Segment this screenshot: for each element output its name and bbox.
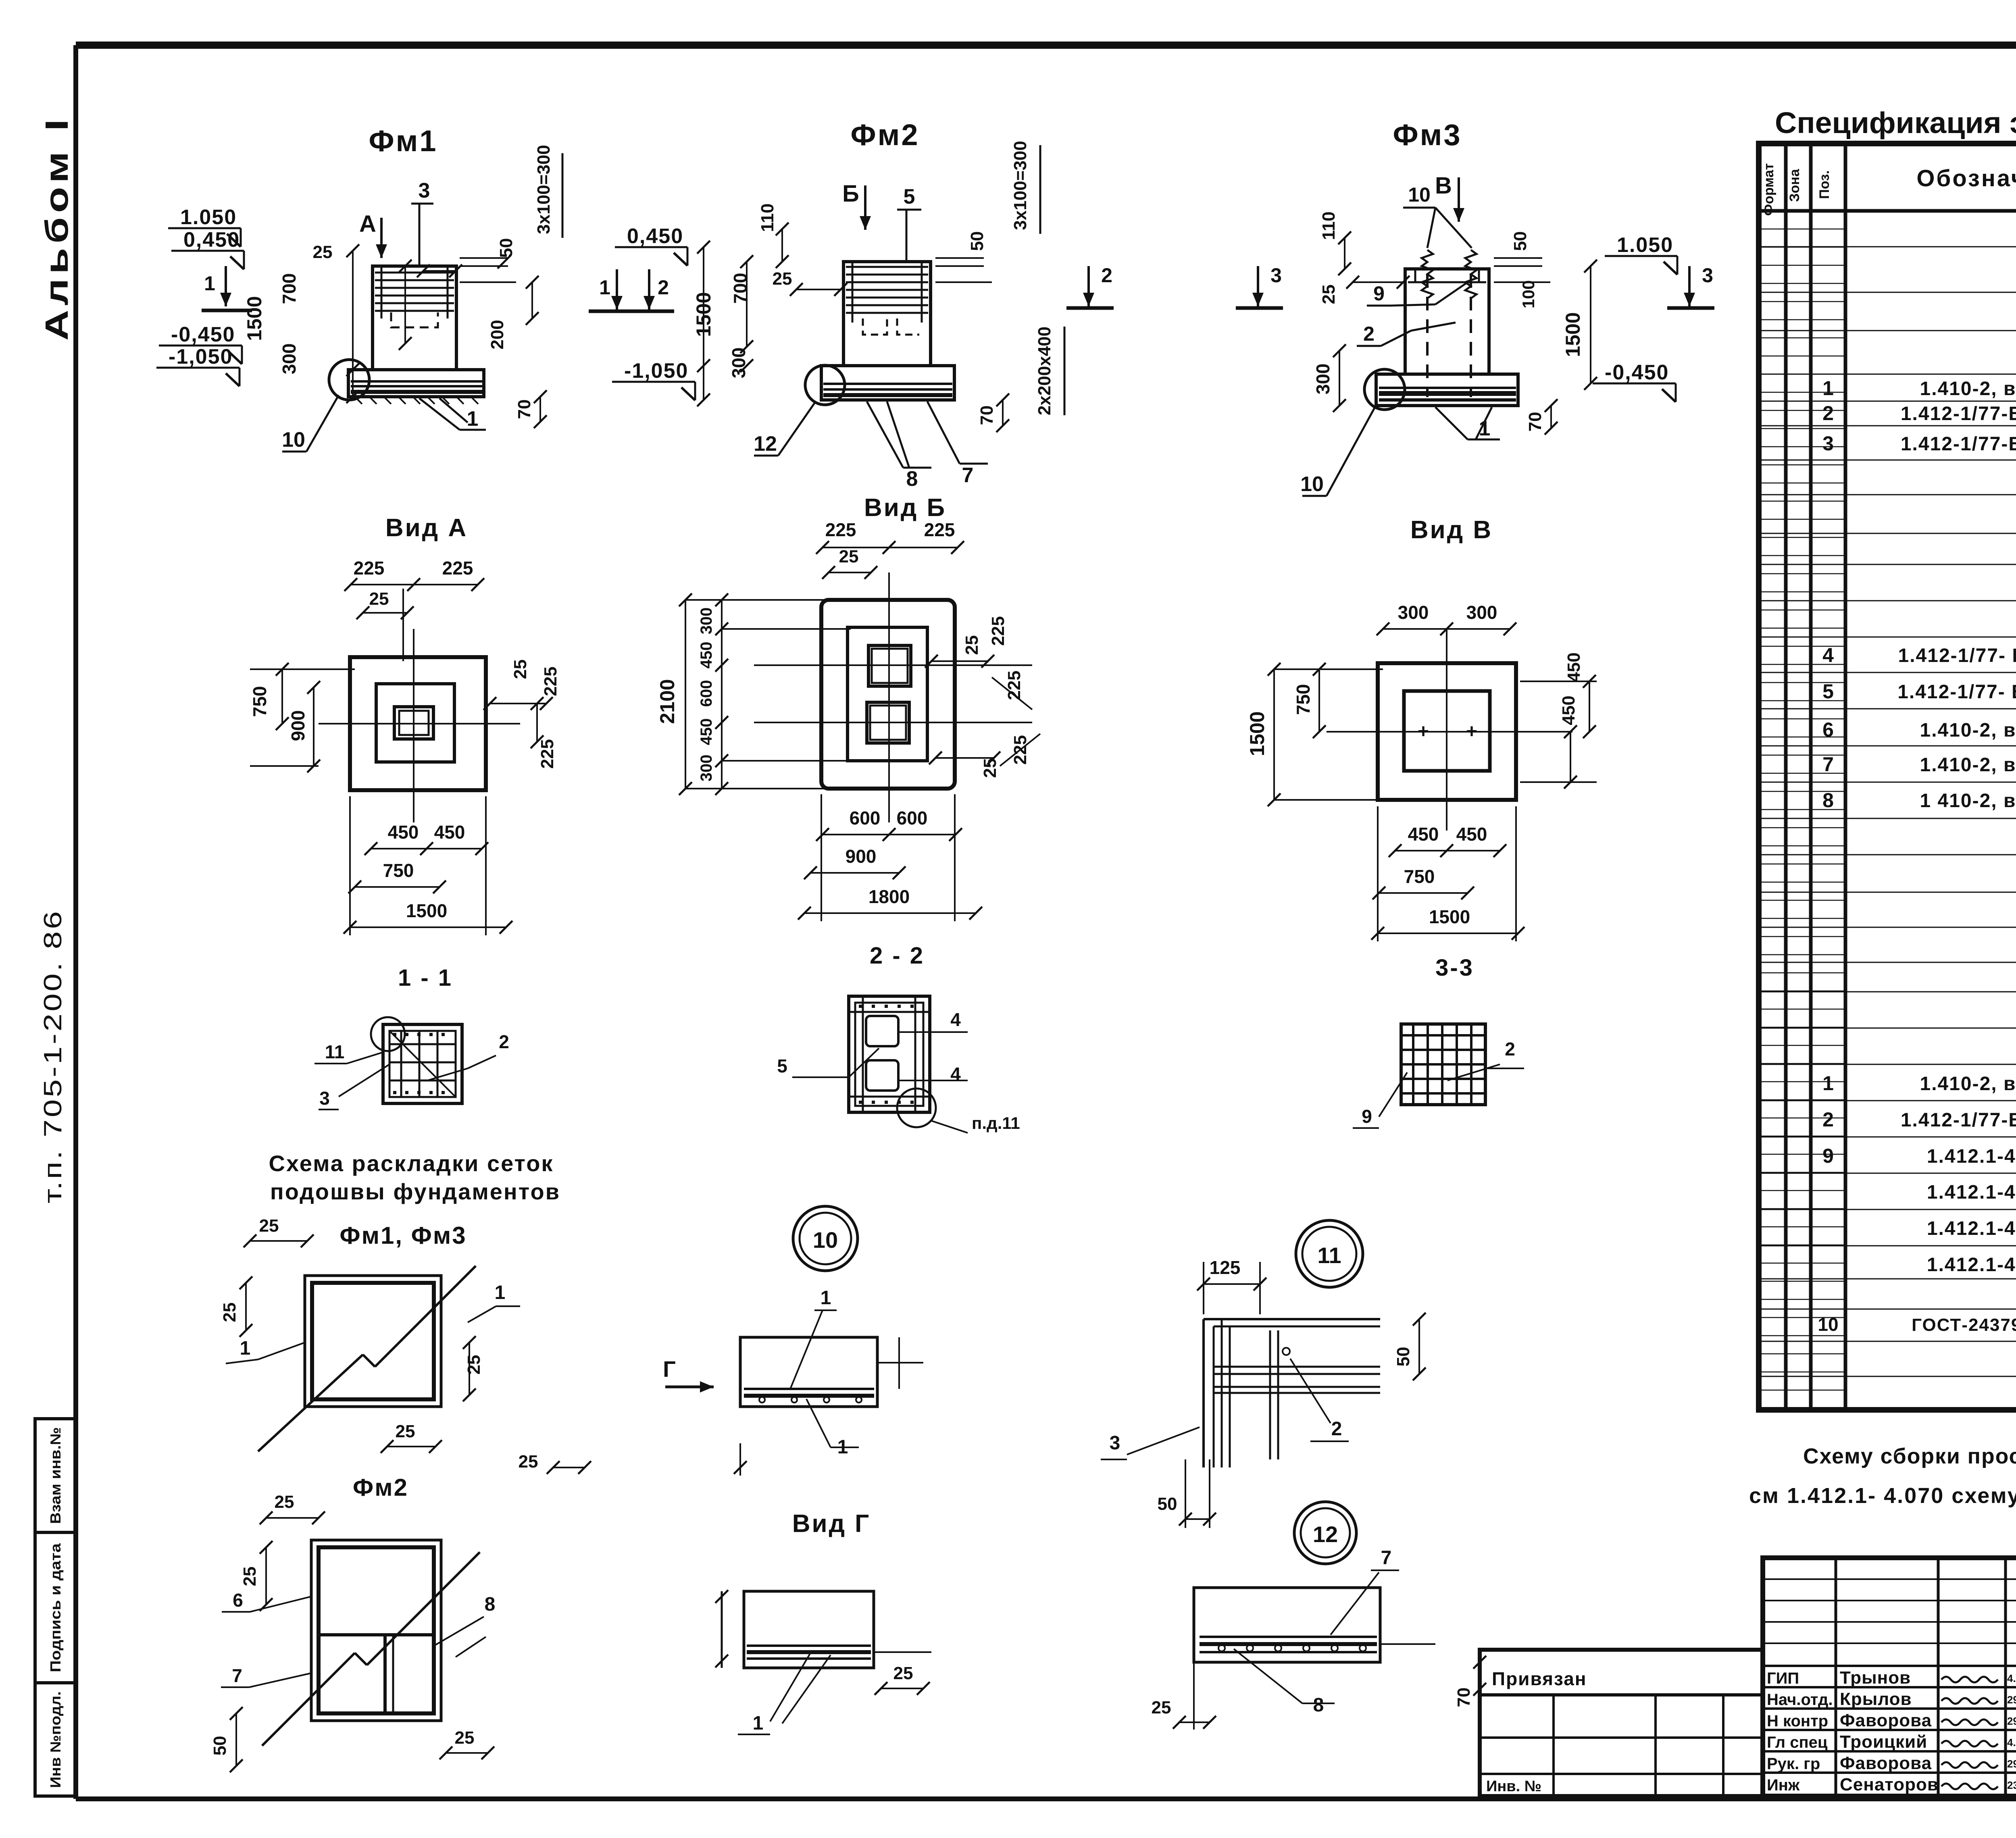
svg-text:2 - 2: 2 - 2 xyxy=(870,943,925,969)
svg-text:10: 10 xyxy=(813,1227,838,1253)
svg-text:450: 450 xyxy=(1564,652,1584,682)
svg-text:5: 5 xyxy=(1822,680,1834,703)
Vid B outer xyxy=(821,600,955,789)
svg-text:Взам инв.№: Взам инв.№ xyxy=(47,1427,64,1524)
svg-text:1: 1 xyxy=(204,272,215,295)
svg-text:8: 8 xyxy=(1822,789,1834,812)
svg-text:Фм2: Фм2 xyxy=(850,118,919,152)
svg-text:70: 70 xyxy=(1454,1688,1474,1707)
svg-text:450: 450 xyxy=(1456,824,1487,845)
Fm2 dims right xyxy=(935,257,984,259)
svg-text:25: 25 xyxy=(510,660,530,679)
svg-text:25: 25 xyxy=(240,1567,260,1586)
svg-text:300: 300 xyxy=(1312,364,1333,395)
svg-text:подошвы фундаментов: подошвы фундаментов xyxy=(270,1179,560,1204)
Fm2 leaders 8 7 xyxy=(867,402,903,468)
svg-text:450: 450 xyxy=(1408,824,1439,845)
svg-text:5: 5 xyxy=(777,1055,787,1076)
svg-text:450: 450 xyxy=(388,822,419,843)
svg-text:10: 10 xyxy=(1818,1314,1838,1335)
svg-text:225: 225 xyxy=(541,666,560,696)
svg-text:600: 600 xyxy=(897,808,928,828)
Fm3 detail circle xyxy=(1364,369,1405,410)
svg-text:Фм3: Фм3 xyxy=(1393,118,1462,152)
svg-text:Фаворова: Фаворова xyxy=(1840,1711,1932,1730)
svg-text:2х200х400: 2х200х400 xyxy=(1035,327,1054,415)
svg-text:110: 110 xyxy=(1319,212,1339,240)
svg-text:Гл спец: Гл спец xyxy=(1767,1734,1828,1751)
svg-text:200: 200 xyxy=(487,320,507,349)
svg-text:Обозначение: Обозначение xyxy=(1916,165,2016,192)
svg-text:12: 12 xyxy=(1313,1522,1338,1547)
svg-text:25: 25 xyxy=(220,1303,240,1322)
svg-text:25: 25 xyxy=(313,242,333,262)
svg-text:1.410-2, вып.1: 1.410-2, вып.1 xyxy=(1920,1073,2016,1095)
svg-text:1.412.1-4.080: 1.412.1-4.080 xyxy=(1927,1254,2016,1276)
svg-text:2100: 2100 xyxy=(656,679,679,724)
Fm2 dims left xyxy=(703,247,704,400)
Fm2 column xyxy=(843,262,931,366)
Fm1 column xyxy=(373,266,456,370)
svg-text:Нач.отд.: Нач.отд. xyxy=(1767,1691,1833,1709)
svg-text:10: 10 xyxy=(1300,473,1324,496)
Fm1 detail circle xyxy=(329,360,369,400)
svg-text:Зона: Зона xyxy=(1787,169,1802,202)
svg-text:2: 2 xyxy=(658,276,669,299)
svg-text:Инж: Инж xyxy=(1767,1776,1800,1794)
svg-text:8: 8 xyxy=(906,467,918,491)
svg-text:ГИП: ГИП xyxy=(1767,1669,1799,1687)
svg-text:29.1.86: 29.1.86 xyxy=(2007,1715,2016,1727)
svg-text:25: 25 xyxy=(369,589,389,609)
svg-text:В: В xyxy=(1435,173,1452,199)
svg-text:25: 25 xyxy=(773,269,792,289)
svg-text:4: 4 xyxy=(1822,644,1834,666)
svg-text:450: 450 xyxy=(698,718,715,745)
svg-text:9: 9 xyxy=(1362,1106,1372,1127)
svg-text:50: 50 xyxy=(1158,1494,1177,1514)
svg-text:10: 10 xyxy=(1408,183,1431,206)
Fm3 anchor bolts dashed xyxy=(1426,274,1429,397)
svg-text:2: 2 xyxy=(1363,323,1375,345)
svg-text:Альбом I: Альбом I xyxy=(39,115,75,341)
svg-text:750: 750 xyxy=(249,686,270,717)
svg-text:Инв №подл.: Инв №подл. xyxy=(47,1691,64,1788)
Fm3 bolt springs xyxy=(1422,250,1433,298)
svg-text:300: 300 xyxy=(1398,602,1429,623)
svg-text:1.412.1-4.050: 1.412.1-4.050 xyxy=(1927,1146,2016,1167)
svg-text:3: 3 xyxy=(419,179,430,202)
svg-text:1.412-1/77-В.3-100: 1.412-1/77-В.3-100 xyxy=(1901,403,2016,425)
svg-text:Инв. №: Инв. № xyxy=(1486,1778,1541,1795)
svg-text:1500: 1500 xyxy=(1246,711,1268,756)
svg-text:ГОСТ-24379.1- 80: ГОСТ-24379.1- 80 xyxy=(1912,1315,2016,1335)
circle 11 xyxy=(1296,1220,1363,1287)
svg-text:1.412-1/77-В.3-100: 1.412-1/77-В.3-100 xyxy=(1901,1109,2016,1131)
Fm1 leader 10 xyxy=(306,395,339,452)
svg-text:1: 1 xyxy=(1822,1072,1834,1095)
svg-text:3: 3 xyxy=(1702,264,1713,287)
svg-text:1.412-1/77-В 3-020: 1.412-1/77-В 3-020 xyxy=(1901,433,2016,455)
svg-text:1 410-2, вып.1: 1 410-2, вып.1 xyxy=(1920,790,2016,812)
svg-text:см 1.412.1- 4.070 схему 1.: см 1.412.1- 4.070 схему 1. xyxy=(1749,1484,2016,1508)
svg-text:70: 70 xyxy=(1525,412,1545,432)
circle 12 xyxy=(1294,1502,1356,1564)
circle 10 xyxy=(793,1206,858,1271)
svg-text:300: 300 xyxy=(698,608,715,635)
svg-text:1.412.1-4.080: 1.412.1-4.080 xyxy=(1927,1218,2016,1239)
svg-text:7: 7 xyxy=(1822,753,1834,776)
svg-text:50: 50 xyxy=(1510,231,1530,251)
svg-text:1.412.1-4.080: 1.412.1-4.080 xyxy=(1927,1182,2016,1203)
svg-text:9: 9 xyxy=(1373,282,1385,305)
svg-text:2: 2 xyxy=(1331,1418,1342,1440)
svg-text:1: 1 xyxy=(1822,377,1834,400)
svg-text:225: 225 xyxy=(442,558,473,579)
svg-text:600: 600 xyxy=(698,680,715,707)
svg-text:1500: 1500 xyxy=(1562,312,1584,357)
svg-text:1: 1 xyxy=(599,276,610,299)
svg-text:750: 750 xyxy=(1404,866,1435,887)
Fm3 column xyxy=(1405,269,1489,374)
svg-text:3: 3 xyxy=(1822,432,1834,455)
section 3-3 grid xyxy=(1401,1024,1485,1105)
svg-text:450: 450 xyxy=(1559,695,1579,725)
svg-text:3: 3 xyxy=(319,1088,330,1109)
section 1-1 grid xyxy=(383,1024,462,1103)
svg-text:Спецификация элементов моноли: Спецификация элементов монолитной констр… xyxy=(1775,106,2016,139)
left margin attribute strip xyxy=(35,1419,76,1796)
svg-text:4: 4 xyxy=(950,1009,961,1030)
svg-text:7: 7 xyxy=(232,1665,242,1686)
svg-text:+: + xyxy=(1466,721,1477,742)
svg-text:10: 10 xyxy=(282,428,305,452)
svg-text:9: 9 xyxy=(1822,1145,1834,1167)
Vid A squares xyxy=(350,657,486,790)
svg-text:4.1.86: 4.1.86 xyxy=(2007,1736,2016,1748)
svg-text:Сенаторов: Сенаторов xyxy=(1840,1775,1939,1794)
svg-text:50: 50 xyxy=(967,231,987,251)
svg-text:700: 700 xyxy=(279,273,300,304)
svg-text:1.410-2, вып.1: 1.410-2, вып.1 xyxy=(1920,378,2016,400)
svg-text:700: 700 xyxy=(730,273,751,304)
svg-text:1500: 1500 xyxy=(243,296,266,341)
spec table grid xyxy=(1759,144,2016,1410)
svg-text:25: 25 xyxy=(259,1216,279,1236)
svg-text:1: 1 xyxy=(821,1287,831,1309)
svg-text:450: 450 xyxy=(434,822,465,843)
svg-text:Формат: Формат xyxy=(1761,163,1776,216)
svg-text:А: А xyxy=(359,211,376,237)
schema diagonal xyxy=(258,1355,363,1451)
svg-text:3: 3 xyxy=(1270,264,1282,287)
svg-text:т.п. 705-1-200. 86: т.п. 705-1-200. 86 xyxy=(39,909,67,1203)
svg-text:2: 2 xyxy=(499,1031,509,1052)
Fm1 right dims xyxy=(460,257,508,259)
svg-text:70: 70 xyxy=(977,406,997,425)
svg-text:Трынов: Трынов xyxy=(1840,1668,1911,1688)
Vid V squares xyxy=(1378,663,1516,800)
svg-text:Вид Г: Вид Г xyxy=(792,1510,871,1538)
frame xyxy=(76,42,2016,49)
Vid A center lines xyxy=(413,629,414,822)
svg-text:Крылов: Крылов xyxy=(1840,1689,1912,1709)
svg-text:1.410-2, вып.1: 1.410-2, вып.1 xyxy=(1920,720,2016,741)
schema Fm1Fm3 square xyxy=(305,1276,441,1407)
Vid B center lines xyxy=(888,572,890,822)
section 2-2 grid xyxy=(849,996,930,1112)
svg-text:4: 4 xyxy=(950,1064,961,1084)
svg-text:11: 11 xyxy=(1317,1243,1341,1268)
svg-text:12: 12 xyxy=(754,432,777,456)
svg-text:1.050: 1.050 xyxy=(180,206,237,229)
svg-text:300: 300 xyxy=(1466,602,1497,623)
svg-text:Вид Б: Вид Б xyxy=(864,494,946,522)
svg-text:110: 110 xyxy=(758,204,777,232)
Fm2 footing xyxy=(821,366,954,400)
svg-text:25: 25 xyxy=(962,635,982,655)
svg-text:1500: 1500 xyxy=(406,900,447,921)
svg-text:100: 100 xyxy=(1519,280,1538,308)
svg-text:Фаворова: Фаворова xyxy=(1840,1753,1932,1773)
svg-text:-0,450: -0,450 xyxy=(1605,361,1669,384)
svg-text:1500: 1500 xyxy=(692,292,715,337)
svg-text:25: 25 xyxy=(519,1452,538,1472)
Fm1 dashed insert xyxy=(391,312,438,327)
svg-text:300: 300 xyxy=(279,343,300,375)
svg-text:25: 25 xyxy=(455,1728,475,1748)
svg-text:2: 2 xyxy=(1505,1039,1515,1060)
detail 12 xyxy=(1194,1588,1380,1662)
Fm3 diag lines inside column xyxy=(1435,282,1468,304)
svg-text:1: 1 xyxy=(1479,417,1491,440)
svg-text:50: 50 xyxy=(210,1736,230,1756)
svg-text:-1,050: -1,050 xyxy=(624,359,688,383)
Fm1 leader 1 xyxy=(419,398,460,430)
svg-text:1.410-2, вып.1: 1.410-2, вып.1 xyxy=(1920,754,2016,776)
svg-text:225: 225 xyxy=(825,519,856,540)
svg-text:125: 125 xyxy=(1210,1257,1241,1278)
svg-text:3-3: 3-3 xyxy=(1435,955,1474,981)
Fm2 detail circle xyxy=(805,365,845,405)
svg-text:Подпись и дата: Подпись и дата xyxy=(47,1543,64,1672)
svg-text:7: 7 xyxy=(1381,1547,1392,1569)
svg-text:Н контр: Н контр xyxy=(1767,1712,1828,1730)
svg-text:6: 6 xyxy=(1822,718,1834,741)
svg-text:-0,450: -0,450 xyxy=(171,323,235,346)
svg-text:25: 25 xyxy=(396,1422,415,1441)
svg-text:600: 600 xyxy=(850,808,881,828)
svg-text:1: 1 xyxy=(495,1282,506,1303)
svg-text:1: 1 xyxy=(467,407,479,431)
svg-text:Схему сборки пространственно: Схему сборки пространственного каркаса ф… xyxy=(1803,1444,2016,1468)
svg-text:Троицкий: Троицкий xyxy=(1840,1732,1927,1752)
svg-text:8: 8 xyxy=(485,1594,496,1615)
svg-text:1: 1 xyxy=(753,1713,764,1734)
svg-text:1.412-1/77- В.3-110: 1.412-1/77- В.3-110 xyxy=(1898,645,2016,666)
bottom beam drawing xyxy=(744,1591,874,1668)
svg-text:25: 25 xyxy=(893,1663,913,1683)
title block: signature table xyxy=(1763,1558,2016,1796)
Fm1 footing hatch xyxy=(355,397,362,404)
svg-text:23.01.86: 23.01.86 xyxy=(2007,1779,2016,1791)
svg-text:25: 25 xyxy=(464,1355,484,1375)
svg-text:1.050: 1.050 xyxy=(1617,233,1673,257)
top beam drawing xyxy=(740,1337,877,1407)
svg-text:7: 7 xyxy=(962,464,974,487)
svg-text:1500: 1500 xyxy=(1429,906,1470,927)
svg-text:750: 750 xyxy=(1293,684,1314,715)
Fm3 leader 1 xyxy=(1435,407,1468,439)
svg-text:225: 225 xyxy=(988,616,1008,645)
schema Fm2 square xyxy=(311,1540,441,1721)
svg-text:29.1.86: 29.1.86 xyxy=(2007,1758,2016,1770)
svg-text:300: 300 xyxy=(728,348,749,379)
svg-text:Схема раскладки сеток: Схема раскладки сеток xyxy=(269,1151,554,1176)
svg-text:8: 8 xyxy=(1313,1694,1324,1716)
svg-text:2: 2 xyxy=(1101,264,1112,287)
svg-text:5: 5 xyxy=(904,185,915,208)
svg-text:25: 25 xyxy=(1152,1698,1171,1717)
svg-text:50: 50 xyxy=(1393,1347,1413,1367)
svg-text:25: 25 xyxy=(839,547,859,566)
svg-text:0,450: 0,450 xyxy=(183,228,240,252)
svg-text:Привязан: Привязан xyxy=(1492,1668,1587,1689)
Fm2 leader 12 xyxy=(778,403,814,456)
svg-text:50: 50 xyxy=(496,238,516,258)
svg-text:2: 2 xyxy=(1822,1108,1834,1131)
svg-text:1.412-1/77- В 3-060: 1.412-1/77- В 3-060 xyxy=(1897,681,2016,703)
svg-text:Вид В: Вид В xyxy=(1410,516,1493,544)
svg-text:225: 225 xyxy=(537,739,557,768)
svg-text:3х100=300: 3х100=300 xyxy=(534,145,554,234)
svg-text:225: 225 xyxy=(354,558,385,579)
title block: privyazan table xyxy=(1480,1650,1763,1796)
svg-text:2: 2 xyxy=(1822,402,1834,425)
svg-text:300: 300 xyxy=(698,755,715,782)
svg-text:п.д.11: п.д.11 xyxy=(972,1114,1020,1132)
svg-text:1 - 1: 1 - 1 xyxy=(398,965,453,991)
svg-text:4.02.86: 4.02.86 xyxy=(2007,1672,2016,1684)
svg-text:Рук. гр: Рук. гр xyxy=(1767,1755,1820,1773)
svg-text:900: 900 xyxy=(287,710,308,741)
Vid V center lines xyxy=(1446,629,1447,831)
svg-text:Поз.: Поз. xyxy=(1817,170,1832,199)
svg-text:25: 25 xyxy=(275,1492,294,1512)
svg-text:1: 1 xyxy=(240,1338,251,1359)
svg-text:3: 3 xyxy=(1110,1432,1120,1454)
svg-text:70: 70 xyxy=(514,400,534,419)
svg-text:Фм1, Фм3: Фм1, Фм3 xyxy=(339,1222,467,1249)
svg-text:29.1: 29.1 xyxy=(2007,1694,2016,1706)
svg-text:Фм1: Фм1 xyxy=(369,124,437,158)
Fm1 dim vertical left xyxy=(352,251,354,397)
svg-text:25: 25 xyxy=(1319,285,1339,304)
svg-text:Фм2: Фм2 xyxy=(353,1474,408,1501)
svg-text:Б: Б xyxy=(842,181,859,207)
svg-text:225: 225 xyxy=(924,519,955,540)
svg-text:0,450: 0,450 xyxy=(627,225,683,248)
Fm1 footing xyxy=(348,370,484,397)
svg-text:Вид А: Вид А xyxy=(385,514,468,542)
svg-text:6: 6 xyxy=(233,1590,243,1611)
svg-text:-1,050: -1,050 xyxy=(169,345,233,368)
svg-text:450: 450 xyxy=(698,642,715,669)
svg-text:900: 900 xyxy=(846,846,877,867)
svg-text:+: + xyxy=(1418,721,1429,742)
svg-text:750: 750 xyxy=(383,860,414,881)
svg-text:3х100=300: 3х100=300 xyxy=(1010,141,1030,230)
Fm3 footing xyxy=(1376,374,1518,406)
svg-text:11: 11 xyxy=(325,1041,345,1062)
svg-text:Г: Г xyxy=(663,1356,676,1382)
schema Fm2 diagonal xyxy=(262,1653,355,1746)
svg-text:1800: 1800 xyxy=(868,886,910,907)
